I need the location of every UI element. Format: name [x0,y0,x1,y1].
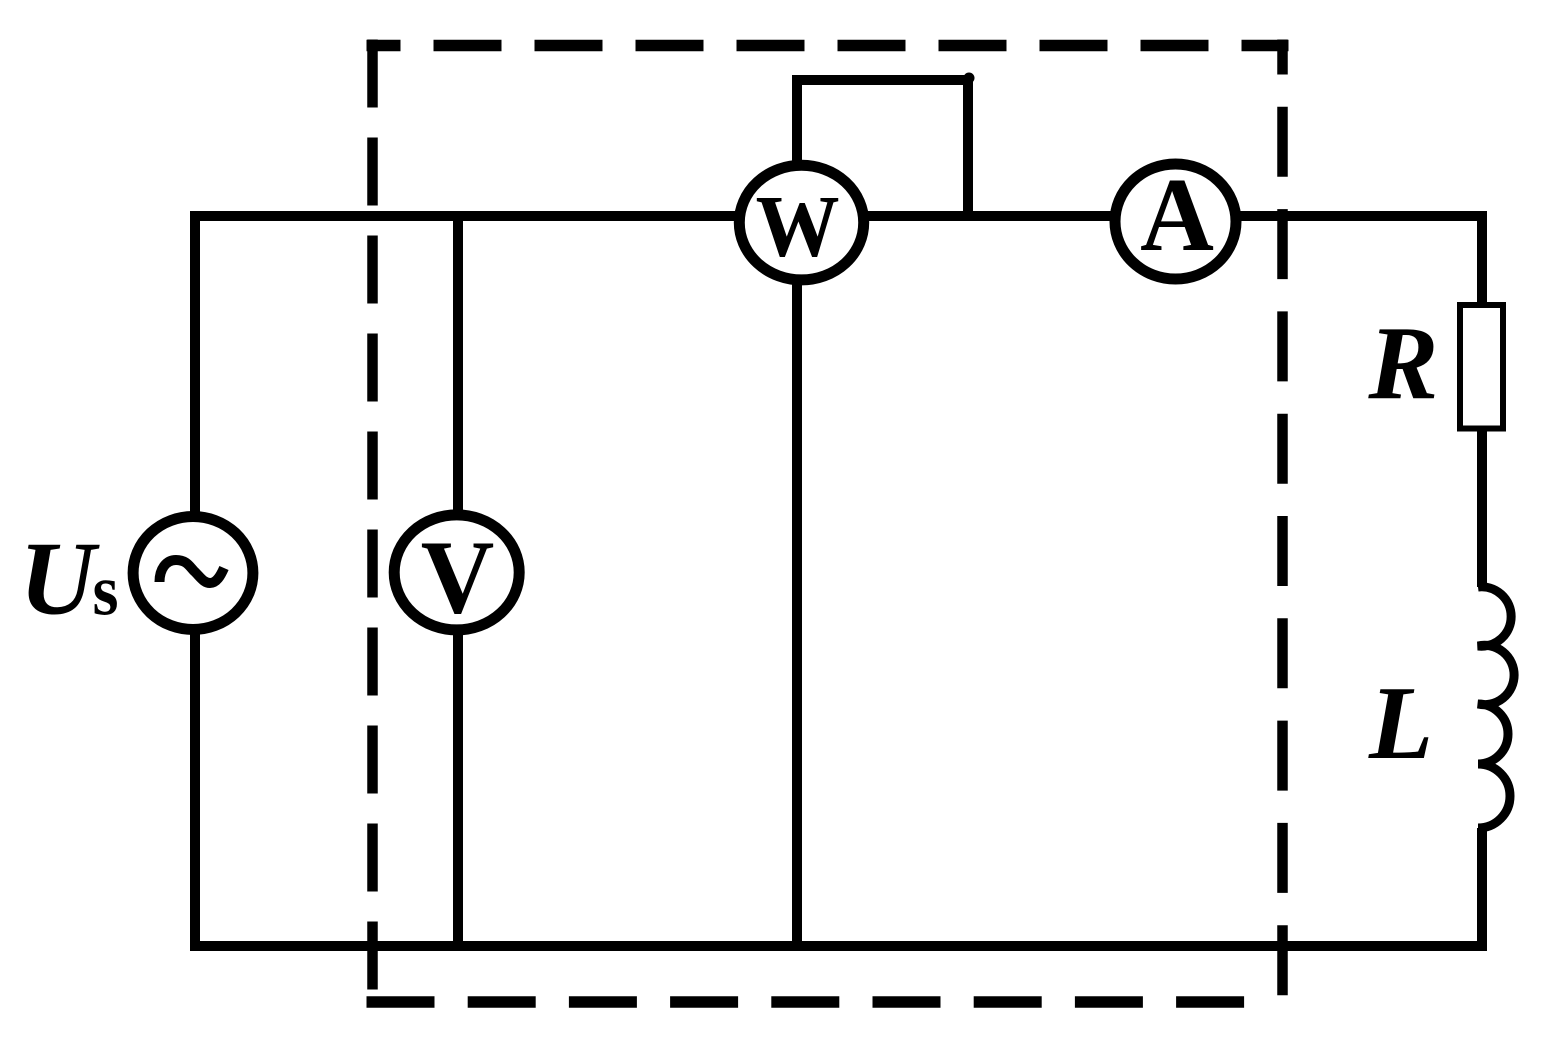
svg-text:V: V [421,520,495,636]
svg-text:A: A [1140,158,1214,274]
svg-text:s: s [93,551,119,631]
svg-text:L: L [1368,664,1433,781]
svg-text:R: R [1367,304,1438,421]
svg-text:W: W [756,177,840,275]
svg-text:U: U [19,520,100,637]
